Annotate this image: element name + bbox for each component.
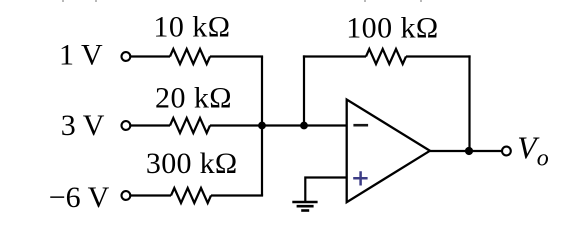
wire feedback top right segment xyxy=(406,55,471,57)
faint cropped marks at top edge xyxy=(62,0,422,2)
svg-text:1 V: 1 V xyxy=(59,38,103,71)
vertical summing wire joining the three branches xyxy=(261,57,263,196)
svg-text:3 V: 3 V xyxy=(61,109,105,142)
junction node B (feedback tap) xyxy=(300,122,308,130)
op-amp non-inverting input plus sign xyxy=(353,171,367,185)
wire op-amp output xyxy=(430,150,502,152)
wire input3 to R3 xyxy=(131,194,172,196)
terminal circle input 2 xyxy=(122,121,131,130)
wire R2 to op-amp inverting input xyxy=(210,124,347,126)
svg-text:300 kΩ: 300 kΩ xyxy=(146,147,238,180)
wire R3 to bottom corner xyxy=(211,194,263,196)
wire input1 to R1 xyxy=(131,55,171,57)
resistor R2 20 kOhm xyxy=(170,118,210,133)
resistor R1 10 kOhm xyxy=(170,49,210,64)
terminal circle input 3 xyxy=(122,191,131,200)
op-amp U1 triangle xyxy=(347,100,430,203)
wire feedback top left segment xyxy=(303,55,366,57)
wire feedback right vertical to output node xyxy=(468,55,470,151)
ground symbol xyxy=(292,202,317,211)
svg-text:20 kΩ: 20 kΩ xyxy=(155,82,232,115)
junction node output xyxy=(465,147,473,155)
svg-text:o: o xyxy=(537,145,549,171)
resistor R3 300 kOhm xyxy=(171,188,211,203)
svg-text:10 kΩ: 10 kΩ xyxy=(153,11,230,44)
svg-text:−6 V: −6 V xyxy=(49,181,110,214)
junction node A (summing node) xyxy=(258,122,266,130)
wire R1 to top corner xyxy=(210,55,263,57)
feedback resistor RF 100 kOhm xyxy=(366,49,406,64)
svg-text:100 kΩ: 100 kΩ xyxy=(346,12,439,45)
terminal circle input 1 xyxy=(122,52,131,61)
wire ground to op-amp non-inverting input xyxy=(305,178,346,202)
op-amp inverting input minus sign xyxy=(353,124,368,127)
wire feedback left vertical xyxy=(303,55,305,125)
wire input2 to R2 xyxy=(131,124,171,126)
terminal circle output xyxy=(502,147,511,156)
